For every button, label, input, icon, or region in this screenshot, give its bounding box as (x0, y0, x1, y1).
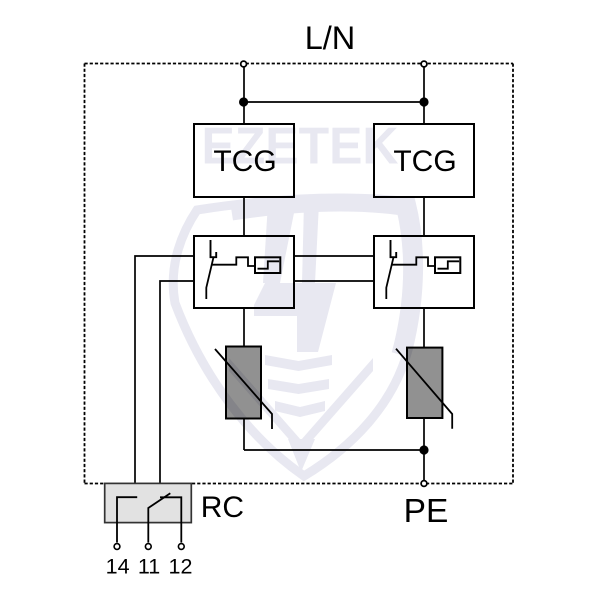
thermal disconnector right (F2) (374, 236, 474, 308)
svg-text:12: 12 (169, 554, 193, 578)
junction node left (239, 97, 248, 106)
label terminal 11 (138, 554, 160, 578)
terminal L/N left (241, 61, 247, 67)
wire L/N left drop (243, 64, 245, 125)
label RC (201, 491, 244, 524)
wire L/N bus (244, 101, 424, 103)
wire disconnector left to RC lower (160, 281, 194, 484)
wire TCG right to disconnector right (423, 197, 425, 236)
terminal 12 (178, 544, 184, 550)
varistor left (RU1) (215, 347, 272, 430)
svg-text:11: 11 (138, 554, 160, 578)
wire L/N right drop (423, 64, 425, 125)
wire varistor right down (423, 418, 425, 450)
remote contact RC box (105, 483, 192, 542)
wire PE bus (244, 449, 424, 451)
wire TCG left to disconnector left (243, 197, 245, 236)
enclosure dashed border (85, 64, 514, 484)
varistor right (RU2) (396, 348, 452, 429)
spark gap TCG right (U2) (374, 124, 474, 197)
wire disconnector left to varistor left (243, 308, 245, 347)
spark gap TCG left (U1) (194, 124, 294, 197)
svg-text:PE: PE (404, 493, 449, 530)
svg-text:RC: RC (201, 491, 244, 524)
label terminal 12 (169, 554, 193, 578)
wire disconnector left to RC upper (135, 256, 194, 484)
terminal L/N right (421, 61, 427, 67)
svg-text:TCG: TCG (393, 145, 456, 178)
terminal 14 (114, 544, 120, 550)
svg-text:EZETEK: EZETEK (202, 117, 399, 175)
wire disconnector right to varistor right (423, 308, 425, 348)
wire between disconnectors upper (294, 255, 374, 257)
svg-text:L/N: L/N (305, 20, 356, 56)
wire PE drop (423, 450, 425, 484)
wire varistor left down (243, 419, 245, 451)
wire between disconnectors lower (294, 280, 374, 282)
junction node right (419, 97, 428, 106)
label terminal 14 (106, 554, 130, 578)
thermal disconnector left (F1) (194, 236, 294, 308)
terminal PE (421, 481, 427, 487)
watermark EZETEK logo (173, 117, 418, 477)
terminal 11 (145, 544, 151, 550)
junction node PE (419, 445, 428, 454)
svg-text:14: 14 (106, 554, 130, 578)
label L/N (305, 20, 356, 56)
label PE (404, 493, 449, 530)
